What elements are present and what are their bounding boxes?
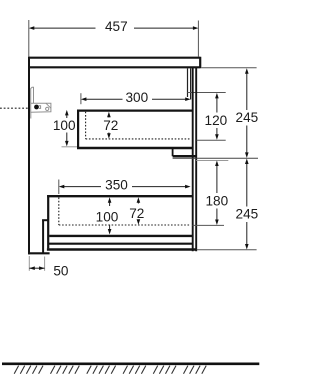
- dimension 100 upper arrow bottom: [65, 141, 69, 147]
- svg-text:100: 100: [96, 210, 119, 225]
- right side panel outer line: [195, 67, 197, 251]
- dimension 120 line lower segment: [216, 128, 218, 137]
- dimension 350 arrow left: [59, 185, 65, 189]
- extension line 120 bottom: [197, 139, 226, 141]
- svg-text:245: 245: [236, 206, 259, 221]
- dimension 245 upper line lower segment: [246, 126, 248, 155]
- dimension 245 lower arrow bottom: [245, 244, 249, 250]
- dimension 457 arrow left: [29, 26, 35, 30]
- dimension 300 arrow left: [81, 97, 87, 101]
- dimension 50 extension line left: [28, 256, 30, 271]
- dimension 457 line left segment: [33, 27, 96, 29]
- dimension 72 lower line upper segment: [137, 201, 139, 204]
- upper drawer box left edge: [77, 110, 79, 148]
- wall reference dotted line: [0, 107, 28, 109]
- dimension 350 line right segment: [132, 186, 186, 188]
- drawer rail bottom band: [173, 155, 197, 157]
- extension line section break short: [196, 160, 228, 162]
- ground hatching: [14, 366, 206, 374]
- lower drawer box left edge: [47, 195, 49, 248]
- lower drawer box top: [47, 195, 193, 197]
- svg-text:350: 350: [105, 177, 128, 192]
- extension line cabinet bottom right: [197, 249, 257, 251]
- dimension 72 lower arrow top: [137, 197, 141, 203]
- dimension 72 upper line lower segment: [108, 133, 110, 136]
- dimension 300 arrow right: [185, 97, 190, 101]
- dimension 245 upper line upper segment: [246, 72, 248, 110]
- dimension 350 extension line left: [58, 180, 60, 195]
- svg-text:72: 72: [103, 118, 118, 133]
- upper drawer box top: [77, 109, 193, 111]
- upper drawer clearance dotted bottom: [86, 138, 191, 140]
- dimension 300 line right segment: [152, 98, 187, 100]
- dimension 180 line upper segment: [216, 164, 218, 193]
- lower drawer clearance dotted left: [58, 198, 60, 226]
- hanging rail inner line A: [187, 68, 189, 97]
- bottom panel top line: [49, 243, 193, 245]
- foot cap: [42, 219, 49, 221]
- dimension 300 extension stub left: [80, 93, 82, 104]
- ground line: [2, 362, 259, 365]
- right side panel inner line: [192, 67, 194, 251]
- wall bracket screw dot: [34, 105, 39, 110]
- dimension 245 upper arrow top: [245, 68, 249, 74]
- dimension 100 lower arrow top: [108, 197, 112, 203]
- dimension 50 arrow right: [39, 266, 45, 270]
- dimension 457 extension line left: [28, 20, 30, 57]
- dimension 180 arrow bottom: [215, 220, 219, 226]
- svg-text:180: 180: [205, 193, 228, 208]
- extension line countertop bottom right: [201, 67, 256, 69]
- upper drawer clearance dotted left: [85, 112, 87, 139]
- dimension 457 line right segment: [134, 27, 194, 29]
- dimension 50 line: [29, 267, 44, 269]
- extension line drawer bottom left: [62, 146, 78, 148]
- dimension 100 upper line lower segment: [66, 133, 68, 144]
- dimension 120 line upper segment: [216, 97, 218, 113]
- upper drawer box bottom: [77, 147, 193, 150]
- dimension 72 lower arrow bottom: [137, 219, 141, 225]
- extension line section break long: [173, 157, 258, 159]
- drawer rail riser: [172, 148, 174, 156]
- dimension 72 upper arrow top: [107, 112, 111, 118]
- dimension 245 lower arrow top: [245, 159, 249, 165]
- dimension 180 line lower segment: [216, 209, 218, 222]
- lower drawer box bottom: [49, 235, 193, 237]
- dimension 100 upper line upper segment: [66, 114, 68, 119]
- svg-text:457: 457: [105, 19, 128, 34]
- dimension 72 upper line upper segment: [108, 115, 110, 117]
- dimension 457 arrow right: [193, 26, 199, 30]
- svg-text:245: 245: [236, 110, 259, 125]
- lower drawer clearance dotted bottom: [59, 224, 190, 226]
- dimension 50 extension line right: [44, 257, 46, 271]
- hanging rail inner line B: [190, 68, 192, 99]
- dimension 245 lower line lower segment: [246, 222, 248, 246]
- svg-text:72: 72: [129, 206, 144, 221]
- dimension 72 lower line lower segment: [137, 221, 139, 222]
- dimension 120 arrow top: [215, 93, 219, 99]
- dimension 245 lower line upper segment: [246, 162, 248, 207]
- dimension 100 upper arrow top: [65, 110, 69, 116]
- dimension 350 line left segment: [63, 186, 101, 188]
- extension line rail bottom: [188, 92, 226, 94]
- svg-text:100: 100: [53, 118, 76, 133]
- dimension 120 arrow bottom: [215, 134, 219, 140]
- svg-text:300: 300: [125, 90, 148, 105]
- dimension 50 arrow left: [29, 266, 35, 270]
- bottom panel bottom line: [47, 248, 197, 250]
- foot bottom line: [28, 252, 49, 254]
- dimension 457 extension line right: [197, 21, 199, 57]
- dimension 300 line left segment: [85, 98, 123, 100]
- dimension 100 lower line upper segment: [109, 201, 111, 206]
- left side panel: [28, 57, 30, 255]
- dimension 245 upper arrow bottom: [245, 152, 249, 158]
- extension line 180 bottom: [193, 224, 225, 226]
- svg-text:120: 120: [205, 113, 228, 128]
- dimension 100 lower arrow bottom: [108, 229, 112, 235]
- svg-text:50: 50: [53, 263, 69, 278]
- countertop: [29, 57, 200, 69]
- dimension 350 arrow right: [185, 185, 191, 189]
- dimension 72 upper arrow bottom: [107, 133, 111, 139]
- dimension 100 lower line lower segment: [109, 225, 111, 232]
- foot left line: [42, 220, 44, 254]
- wall bracket: [31, 87, 51, 118]
- dimension 180 arrow top: [215, 161, 219, 167]
